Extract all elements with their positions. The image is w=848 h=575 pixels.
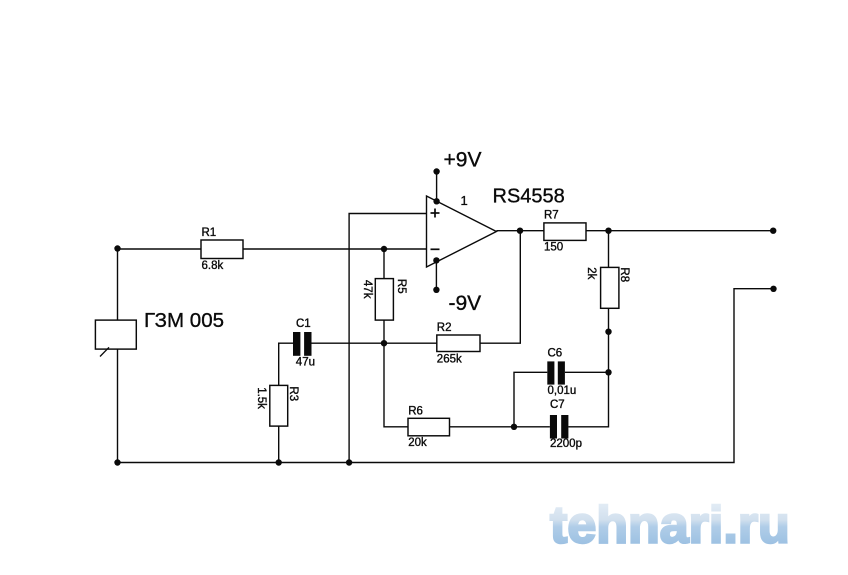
resistor R7: [544, 223, 586, 241]
junction rail R3: [276, 459, 282, 465]
svg-text:tehnari.ru: tehnari.ru: [550, 497, 790, 555]
svg-text:1.5k: 1.5k: [255, 387, 267, 409]
svg-text:R7: R7: [544, 209, 559, 221]
svg-text:-9V: -9V: [449, 292, 482, 315]
junction node B: [511, 424, 517, 430]
op-amp plus input symbol: [431, 209, 440, 218]
wire R8 bottom to C7: [568, 308, 608, 427]
op-amp U1 triangle: [427, 196, 497, 267]
wire R6 to node B: [450, 426, 515, 428]
wire op-amp output to R7: [496, 230, 544, 232]
op-amp minus input symbol: [431, 248, 440, 250]
wire node B to C7: [514, 426, 550, 428]
svg-text:RS4558: RS4558: [493, 185, 565, 207]
capacitor C6 plates: [547, 361, 554, 384]
wire R5 top: [383, 249, 385, 279]
resistor R8: [601, 267, 619, 308]
svg-text:ГЗМ 005: ГЗМ 005: [144, 309, 224, 332]
capacitor C7 plates: [550, 415, 557, 439]
resistor R5: [375, 279, 393, 321]
junction input node: [114, 245, 120, 251]
junction on R8 wire: [605, 329, 611, 335]
junction rail ground wire: [346, 459, 352, 465]
svg-text:6.8k: 6.8k: [202, 260, 224, 272]
svg-text:R2: R2: [437, 322, 452, 334]
resistor R1: [201, 240, 243, 259]
svg-text:47k: 47k: [361, 280, 373, 299]
wire output node to R8: [608, 231, 610, 268]
wire C1 to R3: [279, 343, 293, 385]
junction op-amp output: [517, 228, 523, 234]
resistor R6: [408, 418, 450, 436]
svg-text:47u: 47u: [296, 357, 315, 369]
svg-text:C7: C7: [550, 399, 565, 411]
wire -9V supply: [435, 260, 437, 289]
junction after R7: [605, 228, 611, 234]
svg-text:R1: R1: [202, 227, 217, 239]
wire non-inverting input to ground: [349, 214, 426, 463]
wire C6 to R8 branch: [565, 371, 609, 373]
junction rail left: [114, 459, 120, 465]
svg-text:R3: R3: [287, 386, 299, 401]
svg-text:C6: C6: [548, 348, 563, 360]
wire R5 bottom to node A: [383, 320, 385, 343]
wire R1 to inverting input: [243, 248, 427, 250]
svg-text:R6: R6: [408, 406, 423, 418]
svg-text:C1: C1: [296, 318, 311, 330]
resistor R2: [437, 335, 480, 352]
svg-text:2200p: 2200p: [550, 438, 582, 450]
svg-text:2k: 2k: [585, 267, 597, 279]
svg-text:0,01u: 0,01u: [548, 385, 577, 397]
cartridge stylus stroke: [100, 347, 109, 356]
wire node A to R2: [384, 342, 437, 344]
junction +9V on op-amp: [433, 198, 439, 204]
svg-text:20k: 20k: [408, 437, 427, 449]
junction R5 top: [381, 246, 387, 252]
svg-text:1: 1: [461, 193, 468, 208]
svg-text:R5: R5: [395, 279, 407, 294]
capacitor C1 plates: [293, 332, 300, 356]
junction +9V terminal: [433, 168, 439, 174]
wire R3 to bottom rail: [278, 426, 280, 462]
junction node A: [381, 340, 387, 346]
terminal output lower: [770, 286, 776, 292]
wire cartridge to bottom rail: [117, 349, 119, 462]
junction -9V terminal: [433, 287, 439, 293]
junction C6 right: [605, 369, 611, 375]
wire node A to C1: [312, 342, 385, 344]
wire input node to R1: [118, 248, 202, 250]
wire node A down to R6: [384, 343, 408, 427]
wire +9V supply: [436, 172, 438, 202]
junction -9V on op-amp: [433, 257, 439, 263]
cartridge GZM 005 box: [95, 320, 136, 349]
terminal output upper: [770, 228, 776, 234]
svg-text:R8: R8: [618, 267, 630, 282]
wire bottom rail: [118, 289, 774, 463]
wire R2 to output: [480, 231, 520, 344]
svg-text:+9V: +9V: [444, 149, 482, 172]
svg-text:265k: 265k: [437, 354, 462, 366]
wire R7 to output terminal: [586, 230, 773, 232]
resistor R3: [270, 385, 288, 426]
wire input node down to cartridge: [117, 249, 119, 321]
wire node B to C6: [514, 372, 547, 427]
svg-text:150: 150: [544, 241, 563, 253]
